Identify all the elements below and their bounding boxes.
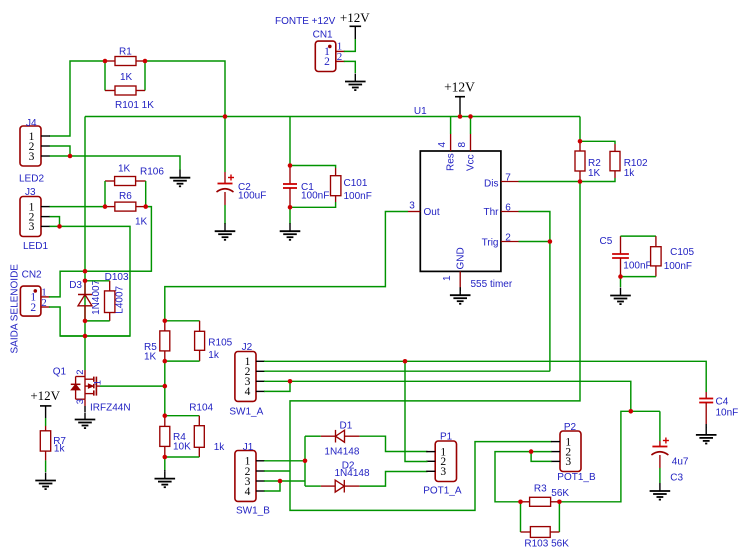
power +12V at U1: [455, 96, 465, 98]
svg-text:D1: D1: [340, 420, 353, 431]
svg-text:Out: Out: [424, 207, 440, 218]
svg-text:1K: 1K: [588, 168, 601, 179]
node J2 pin3: [288, 379, 293, 384]
svg-text:CN1: CN1: [313, 30, 333, 41]
svg-text:R106: R106: [140, 167, 164, 178]
op-amp U1 555 timer body: [420, 151, 501, 271]
svg-text:1k: 1k: [208, 350, 220, 361]
svg-text:C5: C5: [600, 236, 613, 247]
svg-text:+12V: +12V: [30, 388, 60, 403]
connector J4 (LED2): [20, 126, 41, 166]
wire CN2 pin2 to J3 pin3 net: [49, 307, 130, 336]
ground at C1: [289, 223, 291, 231]
capacitor C101 100nF (parallel with C1): [290, 166, 336, 169]
svg-text:+12V: +12V: [340, 10, 370, 25]
svg-text:C4: C4: [716, 397, 729, 408]
node R6 right: [143, 204, 148, 209]
svg-text:LED2: LED2: [19, 174, 44, 185]
resistor R1: [106, 60, 116, 62]
wire P2 pin3 up to pin2: [531, 452, 551, 462]
svg-text:P2: P2: [564, 422, 577, 433]
svg-text:R3: R3: [534, 484, 547, 495]
svg-text:555 timer: 555 timer: [471, 279, 513, 290]
node R4 top: [163, 413, 168, 418]
node J3 pin3: [57, 224, 62, 229]
wire Q1 gate to R5/R4 node: [100, 385, 165, 387]
node solenoid top: [83, 269, 88, 274]
wire CN1 pin2 to ground: [344, 61, 356, 73]
wire J4 pin3 to ground: [50, 156, 181, 170]
ground at R7: [45, 473, 47, 481]
svg-text:6: 6: [505, 203, 511, 214]
wire C5 to ground: [620, 277, 622, 287]
resistor R105 (parallel with R5): [165, 320, 200, 322]
node R3 left: [518, 500, 523, 505]
svg-text:POT1_A: POT1_A: [423, 486, 462, 497]
node J4 pin3 junction: [68, 154, 73, 159]
wire J1 pin4 up to pin3: [264, 481, 280, 491]
svg-text:LED1: LED1: [23, 241, 48, 252]
svg-text:C3: C3: [670, 473, 683, 484]
capacitor C2 100uF: [224, 117, 226, 173]
svg-text:2: 2: [41, 297, 47, 309]
svg-text:R1: R1: [119, 47, 132, 58]
pin 2 Trig of U1: [501, 241, 519, 243]
diode D103 L4007 (parallel with D3): [85, 280, 110, 282]
svg-text:D103: D103: [105, 272, 129, 283]
node R1 right: [143, 59, 148, 64]
capacitor C3 4u7: [659, 411, 661, 441]
node C3 top tee: [629, 409, 634, 414]
svg-text:Dis: Dis: [484, 178, 498, 189]
ground at U1: [459, 287, 461, 295]
svg-text:FONTE +12V: FONTE +12V: [275, 16, 336, 27]
wire D1 to P1 pin1: [360, 436, 428, 451]
svg-text:4: 4: [437, 142, 448, 148]
wire J1 pin3: [264, 480, 305, 482]
svg-text:1N4148: 1N4148: [324, 446, 359, 457]
svg-text:J1: J1: [243, 442, 254, 453]
svg-text:3: 3: [29, 221, 35, 233]
node C1 top: [288, 163, 293, 168]
svg-text:R104: R104: [189, 403, 213, 414]
pin 7 Dis of U1: [501, 181, 519, 183]
svg-text:3: 3: [565, 456, 571, 468]
wire P2 pin2 to R3 left: [495, 452, 552, 502]
wire R6 parallel connectors: [105, 180, 115, 182]
connector P1 (POT1_A): [435, 441, 456, 482]
svg-text:1K: 1K: [118, 164, 131, 175]
svg-text:J2: J2: [242, 342, 253, 353]
wire bus to C1: [289, 117, 291, 166]
wire CN2 pin1 to solenoid net: [49, 271, 151, 297]
svg-text:R103 56K: R103 56K: [524, 539, 569, 550]
wire R1 right to +12V bus: [145, 61, 225, 117]
node R6 left: [103, 204, 108, 209]
wire Trig: [519, 241, 550, 243]
svg-text:POT1_B: POT1_B: [557, 472, 596, 483]
resistor R2: [579, 141, 581, 151]
svg-text:IRFZ44N: IRFZ44N: [90, 403, 131, 414]
power +12V at CN1: [350, 25, 362, 27]
svg-text:8: 8: [457, 142, 468, 148]
wire bus right corner to R2: [579, 117, 581, 142]
node gate junction: [163, 384, 168, 389]
connector P2 (POT1_B): [560, 431, 581, 472]
svg-text:3: 3: [29, 151, 35, 163]
connector J2 (SW1_A): [235, 352, 256, 402]
svg-text:2: 2: [505, 233, 511, 244]
node R2 bottom / Dis: [578, 179, 583, 184]
node J2 pin1 / P1 pin2 tap: [403, 359, 408, 364]
resistor R106: [114, 180, 116, 182]
connector J1 (SW1_B): [235, 451, 256, 502]
node D3 bottom: [83, 319, 88, 324]
node bus C2 tap: [223, 114, 228, 119]
connector J3 (LED1): [20, 197, 41, 237]
svg-text:P1: P1: [440, 432, 453, 443]
svg-text:56K: 56K: [551, 488, 569, 499]
wire bus left vertical to Q1 drain: [84, 117, 86, 371]
svg-text:4: 4: [245, 386, 251, 398]
svg-text:100uF: 100uF: [238, 191, 266, 202]
svg-text:J3: J3: [25, 187, 36, 198]
svg-text:2: 2: [337, 51, 343, 63]
svg-text:3: 3: [440, 466, 446, 478]
wire J3 pin2 down to pin3: [50, 217, 60, 227]
wire Out to R5 top: [165, 212, 408, 321]
wire C4 to ground: [705, 424, 707, 428]
svg-text:Res: Res: [446, 153, 457, 171]
svg-text:SW1_B: SW1_B: [236, 505, 270, 516]
node R3 right: [557, 500, 562, 505]
wire Thr to Trig: [519, 212, 550, 242]
resistor R5: [164, 321, 166, 331]
svg-text:SAIDA SELENOIDE: SAIDA SELENOIDE: [10, 264, 21, 354]
svg-text:1k: 1k: [624, 168, 636, 179]
wire diode branch vertical: [304, 436, 306, 486]
resistor R103 (parallel with R3): [520, 502, 522, 532]
svg-text:J4: J4: [26, 118, 37, 129]
wire J2 pin1 long net to C4: [264, 361, 706, 392]
wire J2 pin3 long net: [264, 381, 631, 411]
wire R1 left to J4 pin1: [50, 61, 106, 136]
svg-text:Q1: Q1: [53, 367, 67, 378]
svg-text:3: 3: [75, 399, 86, 404]
svg-text:1N4007: 1N4007: [91, 279, 102, 314]
wire +12V bus: [85, 116, 580, 118]
wire J2 pin2 to Trig net: [264, 370, 550, 372]
resistor R3: [521, 501, 530, 503]
capacitor C4 10nF: [705, 392, 707, 399]
pin 1 marker CN2: [34, 289, 38, 293]
connector CN1: [315, 41, 336, 71]
wire J3 pin3 to CN2 pin2 net: [50, 226, 131, 336]
wire +12V tap: [459, 114, 461, 117]
svg-text:Trig: Trig: [482, 237, 499, 248]
svg-text:1k: 1k: [214, 442, 226, 453]
node C5 bottom: [618, 274, 623, 279]
svg-text:10K: 10K: [173, 442, 191, 453]
svg-text:1k: 1k: [54, 444, 66, 455]
svg-text:L4007: L4007: [115, 285, 126, 313]
svg-text:2: 2: [75, 370, 86, 375]
svg-text:GND: GND: [455, 247, 466, 269]
pin 1 GND of U1: [459, 271, 461, 290]
svg-text:U1: U1: [414, 106, 427, 117]
svg-text:1K: 1K: [144, 352, 157, 363]
wire D2 to P1 pin3: [360, 472, 428, 487]
svg-text:SW1_A: SW1_A: [229, 407, 263, 418]
svg-text:Thr: Thr: [484, 207, 500, 218]
svg-text:R6: R6: [119, 191, 132, 202]
svg-text:2: 2: [324, 56, 330, 68]
node R5 bottom: [163, 359, 168, 364]
wire J4 pin2 to pin3: [50, 146, 71, 156]
svg-text:1N4148: 1N4148: [335, 468, 370, 479]
svg-text:R105: R105: [208, 338, 232, 349]
node D3 top: [83, 279, 88, 284]
resistor R4: [164, 416, 166, 427]
diode D3 1N4007: [84, 281, 86, 295]
pin 3 Out of U1: [408, 211, 420, 213]
wire J2 pin4 up to pin3: [264, 381, 290, 391]
ground at CN1: [354, 74, 356, 82]
svg-text:C105: C105: [670, 247, 694, 258]
ground at R4: [164, 472, 166, 479]
wire P1 pin2 up to J2 pin1 net: [405, 361, 428, 461]
svg-text:1K: 1K: [135, 217, 148, 228]
node Trig junction: [548, 239, 553, 244]
wire R6 right down to solenoid net: [60, 207, 151, 272]
node R2 top: [578, 139, 583, 144]
svg-text:100nF: 100nF: [301, 191, 329, 202]
wire R5 bottom to gate node: [164, 361, 166, 386]
resistor R6: [105, 206, 115, 208]
node P2 pin2: [529, 449, 534, 454]
ground at C4: [705, 427, 707, 435]
node R1 left: [103, 59, 108, 64]
node Vcc: [468, 114, 473, 119]
diode D2 1N4148: [305, 485, 321, 487]
node C1 bottom: [288, 205, 293, 210]
resistor R101 (parallel with R1): [114, 90, 116, 92]
wire Dis to R2 bottom: [519, 181, 581, 183]
node R5 top: [163, 319, 168, 324]
wire J1 pin1 to diodes: [264, 460, 305, 462]
wire Q1 source to ground: [84, 406, 86, 412]
capacitor C105 100nF (parallel with C5): [621, 235, 656, 237]
node +12V tap: [458, 114, 463, 119]
svg-text:100nF: 100nF: [623, 261, 651, 272]
svg-text:Vcc: Vcc: [466, 154, 477, 171]
svg-text:D3: D3: [69, 280, 82, 291]
pin 8 Vcc of U1: [470, 117, 472, 135]
wire CN1 pin1 to +12V: [344, 39, 356, 51]
svg-text:1K: 1K: [120, 72, 133, 83]
wire J3 pin1 to R6: [50, 206, 106, 208]
svg-text:3: 3: [409, 201, 415, 212]
svg-text:2: 2: [30, 302, 36, 314]
wire R4 bottom to ground: [164, 457, 166, 470]
wire J1 pin2 to Dis net: [264, 470, 290, 472]
node J1 pin1: [303, 459, 308, 464]
wire gate node to R4 top: [164, 386, 166, 416]
svg-text:10nF: 10nF: [716, 408, 739, 419]
pin 6 Thr of U1: [501, 211, 519, 213]
svg-text:100nF: 100nF: [344, 191, 372, 202]
node J1 pin3: [278, 479, 283, 484]
wire U1 GND to ground: [459, 290, 461, 291]
wire Trig down to SW1_A pin2 net: [549, 242, 551, 372]
resistor R102 (parallel with R2): [580, 141, 615, 144]
ground at C2: [224, 223, 226, 231]
wire R1 parallel connectors: [104, 61, 106, 91]
wire C1 to ground: [289, 207, 291, 224]
ground at C3: [659, 483, 661, 491]
power +12V at R7: [40, 405, 51, 407]
diode D1 1N4148: [305, 435, 321, 437]
svg-text:4u7: 4u7: [672, 457, 689, 468]
resistor R104 (parallel with R4): [165, 415, 200, 417]
svg-text:CN2: CN2: [22, 270, 42, 281]
node R4 bottom: [163, 455, 168, 460]
svg-text:1: 1: [442, 275, 453, 281]
pin 1 marker CN1: [328, 45, 332, 49]
svg-text:100nF: 100nF: [664, 261, 692, 272]
capacitor C5 100nF: [620, 236, 622, 254]
svg-text:1: 1: [93, 380, 104, 385]
svg-text:7: 7: [505, 173, 511, 184]
svg-text:R101 1K: R101 1K: [115, 100, 154, 111]
pin 4 Res of U1: [450, 117, 452, 135]
ground at J4 pin3: [179, 170, 181, 178]
resistor R7: [45, 418, 47, 426]
capacitor C1 100nF: [289, 166, 291, 185]
svg-text:+12V: +12V: [444, 80, 475, 95]
svg-text:C101: C101: [344, 178, 368, 189]
ground at C5: [620, 288, 622, 296]
node CN2 pin2 junction: [83, 334, 88, 339]
ground at Q1: [84, 413, 86, 420]
connector CN2 (SAIDA SELENOIDE): [20, 286, 41, 316]
wire R3 right to C3 net: [559, 411, 660, 502]
wire Dis net to P2 pin1: [290, 182, 580, 511]
svg-text:4: 4: [245, 486, 251, 498]
